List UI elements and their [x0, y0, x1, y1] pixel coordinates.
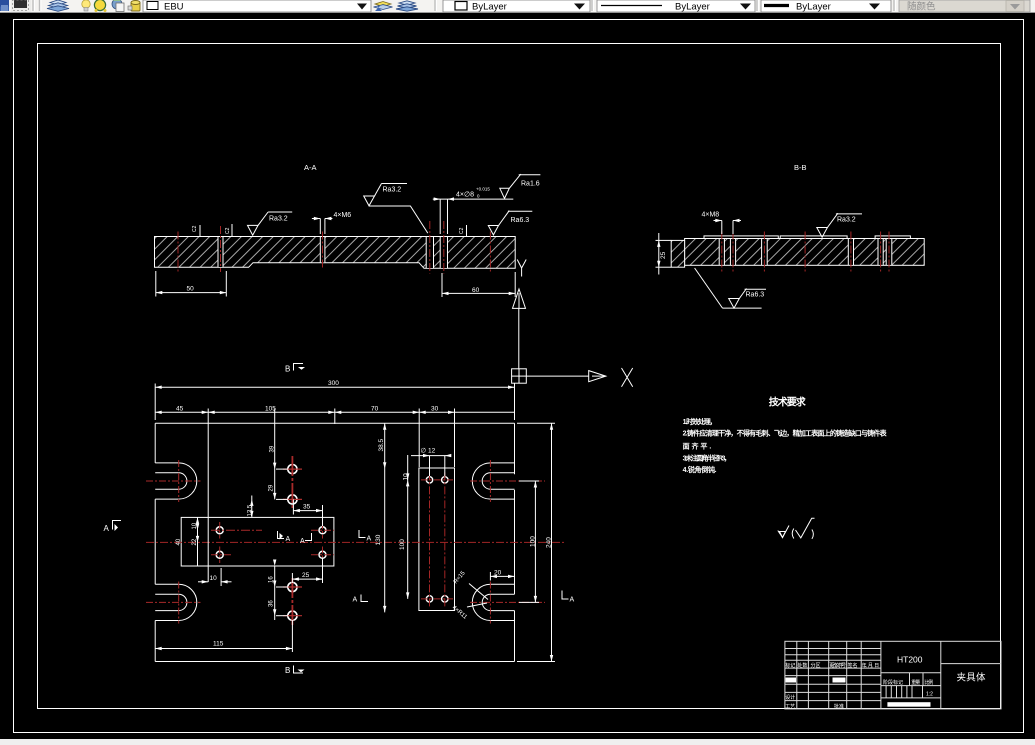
svg-text:分区: 分区 [811, 662, 821, 669]
UCS X arrowhead [589, 371, 606, 382]
section marker A inner-left [278, 531, 291, 543]
dimension 50 [156, 271, 227, 297]
boss hole top-right [319, 527, 326, 534]
section marker B top [285, 364, 305, 374]
plan view plate outline [155, 423, 514, 661]
section A-A hole 1 [218, 237, 223, 268]
4xM6 hole callout [312, 212, 351, 234]
svg-text:比例: 比例 [924, 679, 933, 686]
title block signature blobs [786, 678, 797, 683]
svg-text:Ra3.2: Ra3.2 [837, 217, 856, 224]
title block middle cell verticals [909, 673, 911, 686]
dimension 115 (bottom) [155, 620, 292, 652]
U-slot top-right [472, 463, 514, 499]
svg-text:A: A [353, 597, 358, 604]
svg-text:C2: C2 [225, 227, 231, 234]
dimension 25 (below boss) [292, 559, 322, 584]
roughness symbol Ra6.3 [488, 211, 532, 235]
section B-B hatched bar [685, 239, 925, 266]
toolbar layers stack icon [47, 0, 69, 11]
right plate rectangle [419, 468, 455, 611]
section marker A lower-mid [353, 595, 369, 604]
section A-A hatched bar [155, 237, 516, 269]
svg-text:+0.015: +0.015 [476, 187, 490, 192]
svg-text:38.5: 38.5 [378, 438, 385, 451]
svg-text:A: A [367, 536, 372, 543]
boss hole bottom-right [319, 551, 326, 558]
toolbar separator [434, 0, 436, 11]
svg-text:300: 300 [328, 380, 339, 387]
svg-text:29: 29 [269, 484, 275, 491]
section marker B bottom [285, 666, 305, 676]
svg-text:3.未注圆角半径R3，: 3.未注圆角半径R3， [683, 453, 731, 462]
UCS Y arrowhead [513, 289, 526, 308]
U-slot bottom-left centerlines [178, 582, 180, 624]
boss hole bottom-left [216, 551, 223, 558]
svg-text:39: 39 [270, 445, 276, 452]
svg-text:22: 22 [192, 538, 198, 545]
mid column lower holes [288, 582, 297, 591]
svg-text:重量: 重量 [911, 679, 920, 686]
toolbar layer combo box [143, 0, 371, 12]
svg-text:100: 100 [399, 539, 406, 550]
interior vertical dim lines x=251.8 (13.5) [248, 496, 254, 518]
U-slot top-left [155, 463, 197, 499]
status bar strip [0, 739, 1035, 745]
surface finish summary parentheses + check [792, 518, 814, 539]
svg-text:A-A: A-A [304, 163, 317, 172]
svg-text:Ra3.2: Ra3.2 [269, 216, 288, 223]
U-slot top-right centerlines [489, 460, 491, 502]
roughness symbol Ra3.2 left [248, 212, 293, 235]
svg-text:处数: 处数 [797, 662, 807, 669]
roughness symbol Ra3.2 middle with leader [364, 184, 428, 234]
svg-text:25: 25 [660, 251, 667, 259]
svg-text:HT200: HT200 [897, 655, 923, 665]
section A-A red centerlines [178, 221, 490, 274]
svg-text:B: B [285, 365, 290, 374]
svg-text:Ra1.6: Ra1.6 [521, 181, 540, 188]
svg-text:Ra6.3: Ra6.3 [746, 292, 765, 299]
mid column upper holes [288, 465, 297, 474]
toolbar plot-style combo (disabled) [899, 0, 1030, 12]
svg-text:2.铸件应清理干净，不得有毛刺、飞边，精加工表面上的铸造缺口: 2.铸件应清理干净，不得有毛刺、飞边，精加工表面上的铸造缺口与铸件表 [683, 429, 888, 438]
dimension 10/100 (x=407.7) [399, 455, 410, 599]
central boss rectangle [181, 517, 334, 566]
toolbar grip separators [32, 0, 34, 11]
section B-B left cap [671, 240, 684, 267]
U-slot bottom-right centerlines [489, 582, 491, 624]
toolbar background [0, 0, 1035, 13]
dimension 20 (bottom right slot) [490, 569, 514, 580]
svg-text:10: 10 [210, 575, 218, 582]
chamfer callouts C2 [192, 224, 467, 237]
svg-text:60: 60 [472, 287, 480, 294]
svg-text:夹具体: 夹具体 [957, 672, 986, 684]
section B-B red centerlines [722, 232, 889, 272]
dimension dia12 (right plate holes) [411, 448, 451, 477]
ext line mid column [274, 409, 276, 500]
UCS X axis line [526, 375, 588, 377]
svg-text:50: 50 [187, 286, 195, 293]
dimension 240 (right overall) [517, 423, 555, 661]
UCS X label [622, 368, 633, 387]
svg-text:10: 10 [403, 473, 410, 481]
main horizontal centerline [146, 541, 566, 543]
svg-text:115: 115 [213, 641, 224, 648]
svg-text:∅ 12: ∅ 12 [421, 448, 436, 455]
U-slot top-left centerlines [178, 460, 180, 502]
svg-text:240: 240 [546, 537, 553, 548]
dimension row 45 105 70 30 [155, 405, 514, 582]
svg-text:70: 70 [371, 405, 379, 412]
svg-text:45: 45 [176, 405, 184, 412]
toolbar partial icon left blue [0, 0, 9, 11]
svg-text:A: A [104, 524, 110, 533]
svg-text:4×M8: 4×M8 [702, 212, 720, 219]
mid column lower centerlines [291, 578, 293, 625]
svg-text:阶段标记: 阶段标记 [883, 679, 903, 686]
toolbar sun icon [94, 0, 105, 11]
svg-text:A: A [570, 597, 575, 604]
svg-text:36: 36 [268, 600, 274, 607]
svg-text:更改文件号: 更改文件号 [829, 662, 846, 669]
toolbar layer-previous icon [396, 1, 418, 11]
mid column upper centerlines [291, 456, 293, 510]
U-slot bottom-right [472, 584, 514, 620]
section marker A mid-right [359, 530, 372, 543]
svg-text:35: 35 [303, 504, 311, 511]
section A-A hole 2 [320, 237, 325, 263]
roughness symbol Ra1.6 [500, 174, 541, 198]
title block right horizontal [941, 663, 1001, 665]
title block middle horizontals [881, 672, 941, 674]
dimension 10 (boss left) [198, 568, 232, 586]
toolbar linetype combo [597, 0, 755, 12]
svg-text:A: A [286, 536, 291, 543]
boss hole top-left [216, 527, 223, 534]
svg-text:设计: 设计 [785, 694, 795, 701]
toolbar separator [591, 0, 593, 11]
svg-text:130: 130 [375, 534, 382, 545]
svg-text:Ra6.3: Ra6.3 [511, 217, 530, 224]
svg-text:1.时效处理，: 1.时效处理， [683, 417, 717, 426]
UCS origin box [512, 369, 527, 383]
svg-text:ByLayer: ByLayer [796, 2, 831, 13]
4x dia 8 callout with tolerance [433, 187, 514, 235]
roughness symbol Ra6.3 (B-B bottom leader) [695, 268, 766, 308]
dimension 300 (top) [155, 380, 514, 420]
svg-text:EBU: EBU [164, 2, 184, 13]
svg-text:30: 30 [431, 405, 439, 412]
toolbar color combo [443, 0, 590, 12]
toolbar separator [756, 0, 758, 11]
svg-text:1:2: 1:2 [926, 692, 933, 698]
title block left grid verticals [796, 641, 798, 709]
toolbar globe+page icon [112, 0, 122, 9]
title block left grid horizontals [785, 648, 881, 650]
dimension 35 [293, 499, 322, 526]
UCS Y axis line [518, 308, 520, 368]
svg-text:随颜色: 随颜色 [907, 1, 936, 13]
svg-text:4×∅8: 4×∅8 [456, 192, 474, 199]
dimension 130 (x=384.7) [375, 423, 386, 612]
svg-text:10: 10 [192, 522, 198, 529]
svg-text:签名: 签名 [848, 662, 858, 669]
svg-text:年、月、日: 年、月、日 [862, 662, 880, 669]
toolbar separator [893, 0, 895, 11]
toolbar lightbulb icon [82, 0, 90, 8]
roughness symbol Ra3.2 (B-B top) [817, 213, 862, 237]
svg-text:ByLayer: ByLayer [472, 2, 507, 13]
diagonal callout 4xR11 [451, 603, 487, 621]
diagonal callout R15 [453, 570, 488, 600]
svg-text:面齐平.: 面齐平. [683, 442, 712, 451]
svg-text:技术要求: 技术要求 [769, 396, 807, 409]
U-slot bottom-left [155, 584, 197, 620]
4xM8 callout (B-B) [702, 212, 742, 235]
dimension 60 [442, 272, 515, 297]
section B-B holes [719, 239, 892, 266]
svg-text:4.锐角倒钝.: 4.锐角倒钝. [683, 465, 717, 474]
interior vertical dim x=274.7 (39 / 29 / 16 / 36) [268, 445, 288, 616]
svg-text:100: 100 [530, 536, 537, 547]
svg-text:C2: C2 [459, 227, 465, 234]
title block header tiny texts [785, 662, 933, 710]
svg-text:13.5: 13.5 [248, 504, 254, 516]
svg-text:20: 20 [494, 569, 502, 576]
toolbar lineweight combo [761, 0, 891, 12]
section marker A far-right [562, 591, 575, 604]
section marker A left [104, 521, 122, 534]
svg-text:B: B [285, 666, 290, 675]
svg-text:C2: C2 [192, 225, 198, 232]
svg-text:B-B: B-B [794, 163, 807, 172]
svg-text:ByLayer: ByLayer [675, 2, 710, 13]
svg-text:Ra3.2: Ra3.2 [383, 187, 402, 194]
section marker A inner-right [300, 533, 312, 545]
interior vertical dim x=197 (10 / 22 / 40) [176, 517, 199, 566]
UCS Y label [517, 260, 526, 277]
toolbar padlock icon [131, 2, 140, 11]
boss hole centerlines [211, 522, 334, 563]
svg-text:4×M6: 4×M6 [334, 212, 352, 219]
svg-text:A: A [300, 538, 305, 545]
UCS icon [512, 260, 633, 387]
svg-text:标记: 标记 [785, 662, 795, 669]
dimension 100 (right, slot to slot) [519, 481, 539, 602]
title block outline [785, 641, 1001, 709]
svg-text:25: 25 [302, 572, 310, 579]
surface finish summary mark small [778, 526, 789, 538]
toolbar icon dark square (block icon) [11, 0, 31, 12]
svg-text:40: 40 [176, 538, 182, 545]
svg-text:16: 16 [268, 576, 274, 583]
dimension 25 (B-B thickness) [656, 233, 672, 275]
section B-B raised strips [704, 236, 778, 239]
right plate holes [426, 477, 432, 483]
svg-text:批准: 批准 [834, 703, 844, 710]
right plate slot centerlines [430, 472, 445, 606]
section A-A hole 3 [426, 237, 433, 269]
svg-text:工艺: 工艺 [785, 704, 795, 710]
toolbar make-current layer icon [375, 2, 391, 7]
section A-A hole 4 [440, 237, 447, 269]
